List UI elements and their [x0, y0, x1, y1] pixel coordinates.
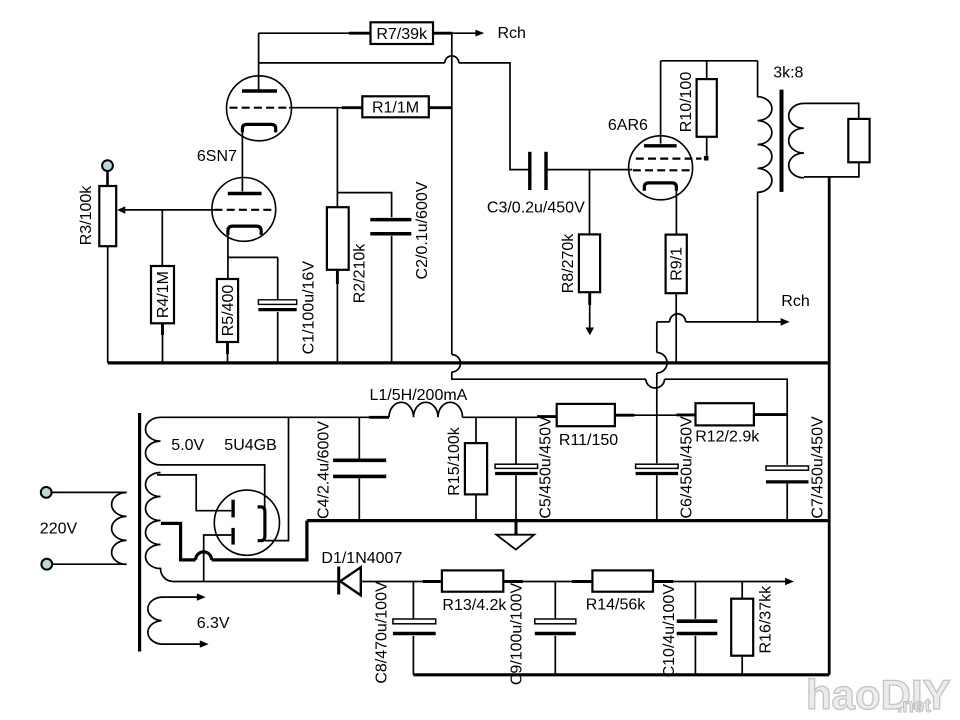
wire R5 stub — [226, 342, 229, 354]
wire speaker bottom — [804, 162, 859, 177]
capacitor C5 — [495, 464, 537, 473]
svg-text:Rch: Rch — [781, 293, 809, 310]
svg-text:C7/450u/450V: C7/450u/450V — [809, 416, 826, 519]
svg-text:C4/2.4u/600V: C4/2.4u/600V — [316, 421, 333, 519]
capacitor C9 — [535, 619, 576, 634]
cathode tube2 — [228, 226, 261, 235]
capacitor C3 — [530, 152, 546, 190]
svg-text:5U4GB: 5U4GB — [224, 437, 276, 454]
screen grid tie dash — [696, 158, 702, 160]
svg-text:220V: 220V — [40, 521, 78, 538]
wire Rch node right — [686, 321, 781, 323]
wire R15 top lead — [475, 417, 477, 443]
resistor R16 — [731, 599, 753, 656]
wire node plate1 to C3 — [259, 62, 445, 64]
wire tap hop over plate lead — [196, 552, 212, 560]
wire filament bottom riser — [265, 417, 289, 540]
wire R10 top lead — [706, 61, 708, 79]
svg-text:.net: .net — [897, 696, 931, 717]
wire R14 to output arrow — [653, 580, 673, 583]
resistor R8 — [579, 234, 600, 292]
wire R7 to Rch arrow — [452, 32, 476, 34]
wire R8 bottom lead — [589, 292, 591, 328]
arrow R8 down — [586, 328, 595, 336]
wire 6.3V bottom lead — [162, 643, 201, 645]
wire C7 bottom lead — [786, 484, 788, 521]
tube 6SN7 lower triode envelope — [212, 178, 276, 242]
capacitor C1 top lead — [277, 257, 279, 299]
svg-text:R13/4.2k: R13/4.2k — [442, 597, 507, 614]
capacitor C4 — [333, 460, 386, 476]
arrow 6.3V top — [197, 593, 206, 600]
ground bus bias — [413, 673, 829, 676]
resistor R4 — [151, 266, 174, 323]
wire C6 bottom lead — [656, 475, 658, 520]
wire R2 bottom stub — [336, 270, 339, 284]
svg-text:6AR6: 6AR6 — [608, 117, 648, 134]
arrow Rch top — [475, 30, 484, 37]
svg-text:C10/4u/100V: C10/4u/100V — [661, 584, 678, 678]
resistor R10 — [697, 79, 717, 137]
wire 5V winding to filament top — [161, 465, 265, 509]
wire R7 left stub — [349, 32, 371, 35]
wire R11 to R12 — [635, 414, 678, 416]
ground bus main — [108, 361, 828, 364]
wire B+ rail — [161, 416, 371, 418]
filament 5U4 — [258, 507, 265, 541]
svg-text:D1/1N4007: D1/1N4007 — [321, 550, 402, 567]
terminal 220V upper — [41, 487, 52, 498]
svg-text:R5/400: R5/400 — [220, 285, 237, 337]
wire top B+ to transformer — [661, 60, 758, 62]
svg-text:C5/450u/450V: C5/450u/450V — [538, 416, 555, 519]
wire grid2 to pot wiper — [125, 209, 215, 211]
resistor R14 — [592, 570, 653, 591]
plate bar P2 5U4 — [231, 528, 234, 545]
wire R4 top lead — [161, 210, 163, 266]
wire B+ riser — [451, 33, 453, 354]
wire R1 right stub — [429, 106, 452, 109]
svg-text:L1/5H/200mA: L1/5H/200mA — [370, 387, 468, 404]
wire R1 left stub — [342, 106, 362, 109]
svg-text:R9/1: R9/1 — [669, 247, 686, 281]
wire R13 to R14 — [503, 580, 523, 583]
wire R13 left stub — [423, 580, 442, 583]
winding 220V primary — [112, 492, 127, 564]
capacitor C2 — [370, 220, 411, 234]
wire 220V upper — [51, 491, 126, 493]
arrow Rch bottom — [781, 318, 790, 326]
wire cathode to R9 — [675, 191, 677, 235]
ground symbol — [496, 521, 534, 550]
resistor R11 — [557, 404, 615, 426]
wire cathode1 to plate2 — [241, 132, 243, 191]
plate bar tube2 — [228, 192, 262, 195]
wire C9 lead top — [554, 582, 556, 619]
svg-text:R3/100k: R3/100k — [78, 185, 95, 246]
capacitor C1 — [258, 300, 296, 310]
resistor R3 (pot) — [99, 186, 116, 246]
wire R5 bottom lead — [227, 342, 229, 363]
arrow 6.3V bottom — [200, 640, 209, 647]
plate bar P1 5U4 — [231, 500, 234, 518]
wire C2 branch — [337, 193, 391, 218]
cathode 6AR6 — [644, 183, 676, 191]
screen tie dot — [704, 156, 709, 161]
wire R2 top lead — [336, 108, 338, 208]
wire R16 bottom lead — [741, 656, 743, 675]
resistor R5 — [217, 279, 238, 342]
watermark — [806, 671, 951, 718]
svg-text:5.0V: 5.0V — [171, 437, 204, 454]
cathode tube1 — [242, 124, 275, 132]
wire C3 to grid 6AR6 — [546, 169, 632, 171]
wire 6.3V top lead — [162, 596, 198, 598]
wire R7 right stub — [433, 32, 453, 35]
svg-text:R16/37kk: R16/37kk — [758, 585, 775, 654]
svg-text:R7/39k: R7/39k — [376, 26, 428, 43]
resistor R1 — [362, 96, 429, 117]
capacitor C5 top lead — [515, 417, 517, 464]
capacitor C7 — [766, 466, 809, 482]
svg-text:6.3V: 6.3V — [197, 615, 230, 632]
svg-text:6SN7: 6SN7 — [197, 148, 237, 165]
wire R8 top lead — [589, 170, 591, 235]
control grid 6AR6 (dashed) — [633, 169, 690, 171]
svg-text:R14/56k: R14/56k — [586, 597, 647, 614]
wire C10 lead bottom — [694, 636, 696, 675]
wire R16 top lead — [741, 582, 743, 599]
winding 5.0V — [146, 417, 161, 465]
wire HV center tap (thick) — [161, 523, 196, 560]
wire R15 bottom lead — [475, 494, 477, 520]
wire 220V lower — [52, 563, 127, 565]
wire hop to C3 corner — [459, 63, 530, 170]
wire line B to C7 — [665, 379, 788, 465]
svg-text:R12/2.9k: R12/2.9k — [695, 428, 760, 445]
svg-text:R4/1M: R4/1M — [155, 271, 172, 318]
wire R3 bottom to ground bus — [107, 246, 109, 363]
wire node A upper — [656, 322, 658, 353]
wire HV top to plate P1 — [157, 475, 231, 511]
tube 6SN7 upper triode envelope — [227, 76, 292, 141]
svg-text:C9/100u/100V: C9/100u/100V — [509, 583, 526, 686]
wire R4 bottom lead — [162, 323, 164, 363]
resistor R7 — [371, 22, 434, 44]
terminal input node — [102, 160, 113, 171]
wire hop over R9 lead — [670, 314, 686, 322]
wire cathode2 branch to C1 — [228, 256, 278, 258]
wire R11 right stub — [615, 414, 635, 417]
inductor L1 — [389, 402, 463, 417]
svg-text:C2/0.1u/600V: C2/0.1u/600V — [414, 181, 431, 279]
svg-text:R10/100: R10/100 — [678, 72, 695, 133]
svg-text:R1/1M: R1/1M — [372, 100, 419, 117]
wire node A to C6 — [656, 373, 658, 463]
wire secondary return drop — [828, 177, 831, 675]
wire grid1 to R1 — [289, 107, 343, 109]
svg-text:R8/270k: R8/270k — [560, 233, 577, 294]
resistor R9 — [666, 235, 687, 294]
ground bus filter — [307, 519, 829, 522]
diode D1 — [339, 567, 361, 596]
svg-text:C6/450u/450V: C6/450u/450V — [679, 416, 696, 519]
svg-text:C8/470u/100V: C8/470u/100V — [374, 581, 391, 684]
wire C1 bottom lead — [277, 312, 279, 363]
capacitor C8 — [393, 619, 436, 634]
resistor R15 — [465, 443, 487, 494]
wire L1 to R11 — [463, 416, 539, 418]
terminal 220V lower — [41, 559, 52, 570]
arrow bias output — [785, 578, 794, 586]
svg-text:Rch: Rch — [498, 25, 526, 42]
capacitor C4 top lead — [358, 417, 360, 458]
wire C8 lead top — [412, 582, 414, 619]
arrow pot wiper — [117, 206, 125, 214]
screen grid 6AR6 (dashed) — [636, 158, 693, 160]
wire plate1 to R7 — [259, 32, 350, 34]
svg-text:3k:8: 3k:8 — [773, 65, 803, 82]
wire R4 stub — [161, 323, 164, 335]
wire node A hop over ground bus — [657, 353, 667, 374]
transformer T2 core — [780, 90, 784, 192]
wire cathode2 down to R5 — [227, 235, 229, 279]
wire bias from HV bottom — [173, 581, 338, 583]
wire line B hop over node A — [646, 379, 665, 388]
capacitor C6 — [636, 464, 679, 473]
winding 6.3V — [148, 597, 162, 644]
plate bar 6AR6 — [644, 144, 677, 147]
resistor R2 — [327, 207, 349, 270]
transformer T2 primary — [758, 61, 772, 322]
tube 5U4GB envelope — [214, 490, 279, 555]
wire R8 stub — [588, 292, 591, 305]
speaker load box — [848, 119, 869, 162]
wire tube1 plate lead — [258, 33, 260, 89]
tube 6AR6 envelope — [629, 136, 693, 200]
wire D1 to R13 — [361, 581, 424, 583]
wire R10 bottom lead — [706, 137, 708, 156]
svg-text:C1/100u/16V: C1/100u/16V — [301, 261, 318, 355]
plate bar tube1 — [242, 89, 277, 92]
resistor R13 — [442, 570, 503, 591]
wire tap to filter bus — [212, 521, 307, 560]
svg-text:R15/100k: R15/100k — [446, 426, 463, 495]
resistor R12 — [696, 403, 754, 425]
wire terminal to R3 — [106, 171, 109, 186]
wire 6AR6 plate lead — [660, 61, 662, 144]
wire C2 bottom lead — [391, 236, 393, 363]
wire R12 left stub — [677, 413, 696, 416]
svg-text:R2/210k: R2/210k — [352, 243, 369, 304]
svg-text:R11/150: R11/150 — [559, 432, 618, 449]
wire R2 bottom lead — [336, 270, 338, 363]
grid tube2 (dashed) — [215, 209, 276, 211]
wire riser hop over ground bus — [452, 355, 461, 372]
wire C8 lead bottom — [412, 636, 414, 675]
wire Rch node left — [657, 321, 670, 323]
wire riser to line B — [452, 372, 646, 379]
wire hop over B+ riser — [445, 56, 459, 63]
wire C10 lead top — [694, 582, 696, 619]
wire C4 bottom lead — [358, 478, 360, 520]
wire R9 bottom lead — [675, 293, 677, 363]
wire plate P2 lead — [204, 535, 232, 582]
wire C9 lead bottom — [554, 636, 556, 675]
winding HV — [146, 473, 173, 582]
wire C5 bottom lead — [515, 475, 517, 520]
wire R12 right stub — [754, 413, 787, 416]
capacitor C10 — [677, 621, 718, 633]
svg-text:C3/0.2u/450V: C3/0.2u/450V — [487, 199, 585, 216]
wire secondary top to speaker — [804, 103, 859, 119]
grid tube1 (dashed) — [230, 107, 290, 109]
transformer T1 core — [138, 413, 141, 652]
transformer T2 secondary — [789, 103, 804, 177]
